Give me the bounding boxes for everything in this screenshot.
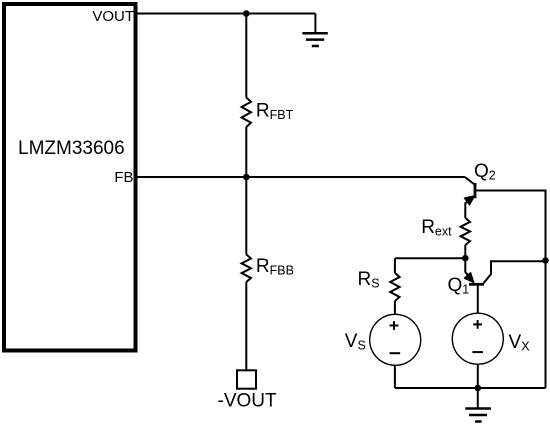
source VX minus: [472, 351, 483, 353]
node FB junction: [243, 174, 250, 181]
wire VOUT junction to RFBT: [245, 14, 247, 98]
source VX circle: [452, 313, 503, 364]
transistor Q2 collector diagonal: [465, 177, 475, 184]
wire Rext to junction: [464, 245, 466, 258]
resistor RFBT: [242, 98, 251, 128]
node right rail junction: [542, 257, 549, 264]
transistor Q1 collector: [484, 261, 546, 283]
transistor Q1 emitter with arrow: [465, 258, 474, 282]
transistor Q2 emitter with arrow: [465, 196, 475, 218]
wire RFBT to FB: [245, 127, 247, 177]
resistor Rext: [461, 218, 470, 245]
transistor Q2 base bar: [474, 183, 477, 198]
ground top-right: [302, 14, 327, 47]
IC U1 LMZM33606 box: [4, 4, 136, 351]
wire VX bottom: [477, 364, 479, 388]
resistor RFBB: [242, 255, 251, 283]
wire Q1 base to VX: [477, 285, 479, 314]
wire Q2 base to right rail, rail down to bottom: [476, 191, 545, 389]
svg-text:FB: FB: [114, 169, 133, 186]
svg-text:-VOUT: -VOUT: [218, 391, 278, 412]
transistor Q1 base bar: [469, 283, 484, 286]
wire FB pin to Q2 collector: [137, 176, 465, 178]
wire VS bottom: [394, 365, 396, 388]
source VS plus: [390, 321, 399, 330]
svg-text:VOUT: VOUT: [92, 8, 134, 25]
node VOUT junction: [243, 10, 250, 17]
node VX bottom junction: [475, 385, 482, 392]
wire VOUT pin to ground: [137, 13, 315, 15]
svg-text:LMZM33606: LMZM33606: [18, 138, 125, 159]
node Rext junction: [462, 255, 469, 262]
terminal -VOUT square: [237, 370, 256, 388]
wire RS top to Rext junction: [395, 257, 465, 259]
source VS circle: [370, 314, 421, 365]
wire RFBB to -VOUT terminal: [245, 282, 247, 370]
wire bottom rail: [395, 387, 546, 389]
wire FB junction to RFBB: [245, 177, 247, 255]
source VX plus: [473, 320, 482, 329]
wire RS to VS: [394, 301, 396, 314]
ground bottom: [465, 388, 491, 422]
wire RS corner down: [394, 258, 396, 273]
source VS minus: [390, 352, 401, 354]
resistor RS: [390, 273, 399, 301]
